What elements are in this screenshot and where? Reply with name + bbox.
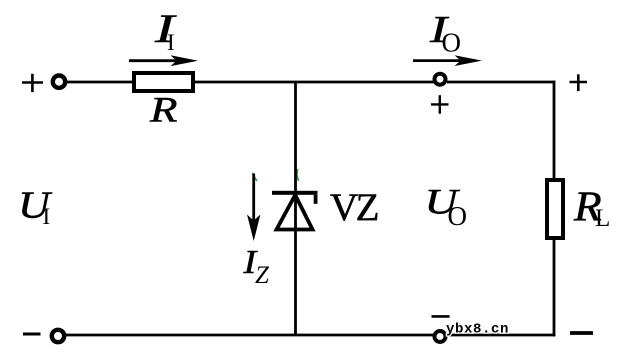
current arrow I_O bbox=[413, 55, 482, 66]
svg-text:Z: Z bbox=[255, 262, 270, 289]
bottom wire node B to input negative terminal bbox=[66, 334, 296, 337]
current arrow I_I bbox=[129, 55, 198, 66]
wire top-right corner down to R_L bbox=[553, 81, 556, 180]
terminal circle top-left bbox=[53, 76, 65, 88]
svg-text:O: O bbox=[448, 201, 468, 231]
terminal circle bottom-left bbox=[52, 330, 64, 342]
bottom wire right corner to bottom output terminal bbox=[447, 334, 555, 337]
wire resistor R to node A bbox=[195, 81, 296, 84]
minus sign input negative terminal bbox=[23, 333, 41, 336]
svg-text:VZ: VZ bbox=[330, 186, 378, 229]
label I_I bbox=[154, 7, 177, 55]
terminal circle output top bbox=[435, 74, 446, 85]
resistor R_L bbox=[547, 180, 563, 238]
label U_I bbox=[18, 183, 52, 229]
terminal circle output bottom bbox=[435, 331, 446, 342]
+ sign below output terminal bbox=[431, 95, 449, 114]
+ sign top-right bbox=[570, 74, 588, 91]
wire input terminal to resistor R bbox=[67, 81, 133, 84]
wire R_L down to bottom-right corner bbox=[553, 238, 556, 336]
svg-text:O: O bbox=[442, 28, 462, 58]
svg-text:I: I bbox=[167, 30, 175, 55]
svg-text:L: L bbox=[595, 205, 610, 232]
svg-text:R: R bbox=[149, 90, 178, 130]
label R_L bbox=[573, 184, 610, 232]
svg-text:I: I bbox=[43, 204, 51, 229]
wire node A to output terminal bbox=[296, 81, 434, 84]
minus sign bottom-right bbox=[570, 331, 593, 335]
green artifact near I_Z arrow top bbox=[253, 173, 258, 181]
svg-text:ybx8.cn: ybx8.cn bbox=[446, 322, 509, 338]
label U_O bbox=[425, 181, 468, 231]
green artifact on zener wire bbox=[297, 169, 299, 181]
+ sign input positive terminal bbox=[22, 74, 43, 92]
zener branch wire node A to node B bbox=[294, 82, 297, 335]
bottom wire bottom output terminal to node B bbox=[296, 334, 434, 337]
minus sign above bottom output terminal bbox=[432, 315, 450, 318]
wire output terminal to top-right corner bbox=[447, 81, 555, 84]
label I_O bbox=[429, 8, 461, 57]
zener diode VZ triangle anode bbox=[277, 195, 313, 230]
current arrow I_Z bbox=[247, 174, 260, 242]
zener diode VZ cathode bar with bent end bbox=[272, 191, 318, 204]
resistor R bbox=[134, 73, 193, 91]
label I_Z bbox=[242, 243, 270, 289]
